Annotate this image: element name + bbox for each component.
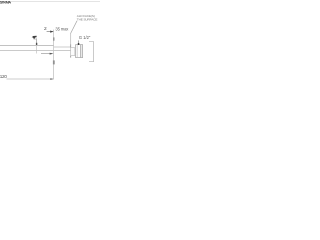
fitting neck — [71, 48, 75, 56]
note leader — [71, 21, 78, 34]
leader to tube — [36, 38, 38, 45]
fitting left face — [70, 44, 72, 57]
svg-text:120: 120 — [0, 74, 7, 79]
socket bracket — [89, 42, 94, 62]
dim line 2 — [47, 31, 54, 33]
svg-text:2: 2 — [44, 26, 47, 32]
svg-text:G 1/2": G 1/2" — [79, 35, 91, 40]
tube bottom line — [0, 50, 71, 52]
svg-text:THE SURFACE: THE SURFACE — [77, 17, 98, 21]
svg-text:STKMA: STKMA — [0, 0, 11, 4]
tube top line right — [54, 46, 71, 48]
tube top line left — [0, 45, 54, 47]
mid dim line — [41, 53, 52, 55]
extension line — [53, 30, 55, 80]
thread label leader — [78, 40, 80, 43]
surface finish symbol — [32, 36, 37, 39]
dim line 120 — [7, 78, 54, 80]
svg-text:35 max: 35 max — [55, 26, 69, 31]
top border line — [11, 0, 100, 3]
fitting extension line — [70, 34, 72, 45]
fitting hex body — [81, 45, 83, 57]
